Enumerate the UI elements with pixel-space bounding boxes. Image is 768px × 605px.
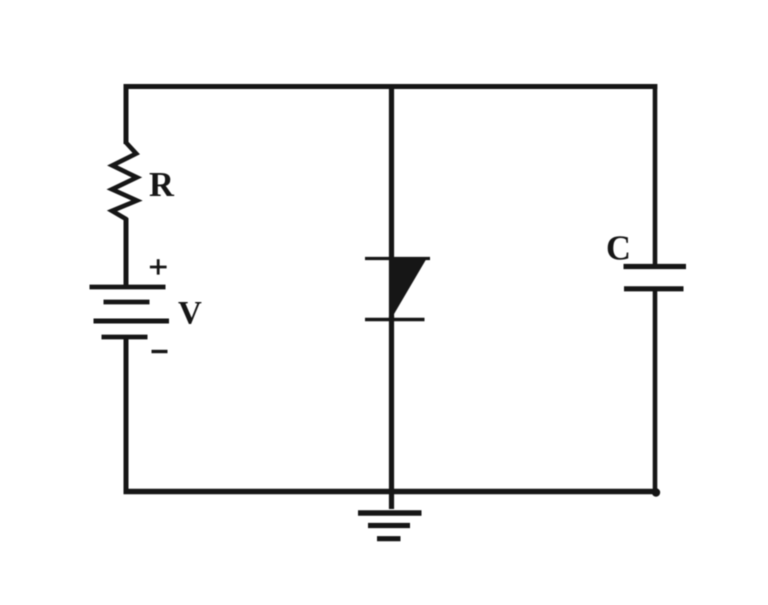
junction dot bottom-right corner: [652, 488, 660, 496]
resistor R: [112, 143, 137, 220]
ground bar 3: [377, 536, 401, 541]
wire right lower: [653, 288, 658, 494]
wire right upper: [653, 84, 658, 267]
wire left lower: [124, 337, 129, 494]
battery V plate 4 (short): [102, 335, 148, 340]
wire top: [124, 84, 658, 89]
svg-text:C: C: [606, 230, 631, 268]
capacitor C plate bottom: [624, 286, 684, 291]
wire middle lower: [389, 316, 394, 509]
battery V plate 2 (short): [104, 300, 150, 305]
diode D bar bottom: [365, 318, 425, 322]
label V: [178, 296, 202, 332]
wire middle upper: [389, 87, 394, 319]
ground bar 1: [358, 510, 422, 515]
label R: [149, 166, 175, 204]
svg-text:V: V: [178, 296, 202, 332]
wire left middle: [124, 218, 129, 287]
capacitor C plate top: [624, 264, 687, 269]
battery V plate 1 (+ long): [90, 285, 166, 290]
battery V plate 3 (long): [94, 319, 170, 324]
diode D triangle: [389, 257, 428, 318]
wire left upper: [124, 84, 129, 144]
diode D cathode bar top: [365, 257, 430, 260]
ground bar 2: [368, 523, 410, 528]
battery minus sign: [152, 350, 168, 353]
battery plus sign: [150, 259, 167, 274]
wire bottom: [124, 489, 658, 494]
svg-text:R: R: [149, 166, 175, 204]
label C: [606, 230, 631, 268]
